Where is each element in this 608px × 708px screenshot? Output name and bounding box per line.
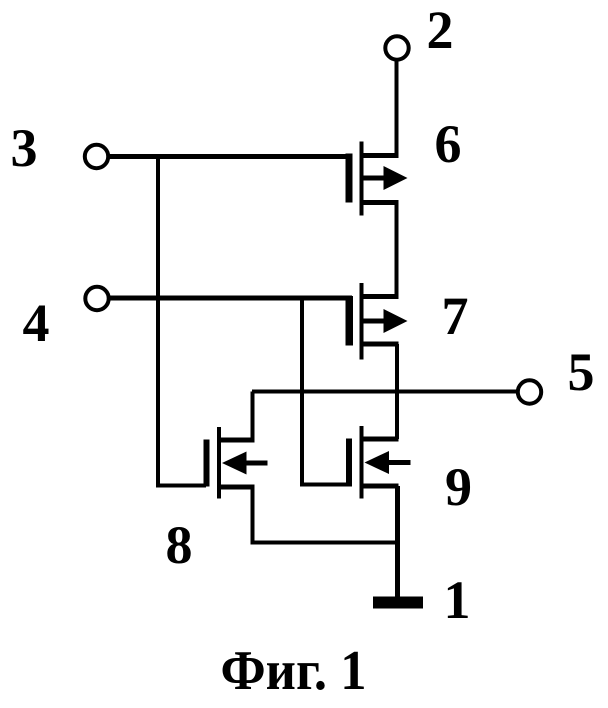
transistor 7 (n-channel MOSFET) [346,283,408,360]
wire: source of 7 down to drain of 9 [395,344,399,439]
wire: source of 9 down to ground [395,486,400,598]
svg-text:9: 9 [445,457,472,517]
terminal 2 [385,36,408,59]
wire: branch from input 3 down to gate of transistor 8 [158,156,206,486]
svg-text:Фиг. 1: Фиг. 1 [221,640,367,702]
svg-text:7: 7 [442,286,469,346]
svg-text:1: 1 [444,570,471,630]
ground symbol (node 1) [373,597,423,609]
terminal 3 [85,145,108,168]
transistor 9 (p-channel MOSFET) [346,426,411,499]
substrate arrow of 7 (pointing right) [362,319,388,324]
gate electrode bar of 8 [204,440,210,487]
svg-text:3: 3 [11,118,38,178]
drain lead of 9 [360,437,399,442]
terminal 4 [85,287,108,310]
svg-text:4: 4 [23,293,50,353]
drain lead of 7 [360,294,399,299]
channel line of 9 [360,426,364,499]
source lead of 7 [360,342,399,347]
svg-text:6: 6 [435,114,462,174]
channel line of 6 [360,142,364,216]
source lead of 6 [360,200,399,205]
gate electrode bar of 6 [346,154,353,203]
substrate arrow of 6 (pointing right) [362,176,388,181]
channel line of 8 [217,427,221,499]
drain lead of 6 [360,153,399,158]
wire: input 4 to gate of transistor 7 [109,296,353,301]
wire: source of 8 down and right to ground node [253,487,398,543]
svg-text:5: 5 [568,342,595,402]
source lead of 9 [360,484,399,489]
svg-text:2: 2 [427,0,454,60]
substrate arrow of 9 (pointing left into channel) [386,460,411,465]
wire: output node to terminal 5 [252,390,519,394]
source lead of 8 [218,485,255,490]
wire: branch from input 4 down to gate of transistor 9 [302,298,349,485]
wire: output node down to drain of transistor 8 [251,392,255,441]
channel line of 7 [360,283,364,360]
gate electrode bar of 7 [346,296,354,346]
gate electrode bar of 9 [346,439,352,487]
drain lead of 8 [218,438,255,443]
wire: source of 6 to drain of 7 [395,203,399,299]
transistor 6 (n-channel MOSFET) [346,142,408,216]
transistor 8 (p-channel MOSFET) [204,427,268,499]
wire: terminal 2 down to drain of transistor 6 [395,60,399,158]
wire: input 3 to gate of transistor 6 [108,154,353,159]
terminal 5 [518,380,541,403]
substrate arrow of 8 (pointing left into channel) [244,461,268,466]
svg-text:8: 8 [166,515,193,575]
